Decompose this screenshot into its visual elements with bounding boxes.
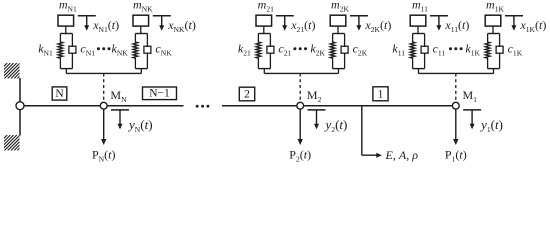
svg-text:x2K(t): x2K(t) [364,18,391,34]
svg-text:MN: MN [110,88,127,104]
svg-text:cN1: cN1 [80,41,95,57]
svg-text:m1K: m1K [486,0,504,14]
svg-text:cNK: cNK [155,41,172,57]
svg-text:xNK(t): xNK(t) [167,18,196,34]
svg-text:mNK: mNK [133,0,153,14]
svg-text:kN1: kN1 [38,41,53,57]
svg-text:M1: M1 [463,88,478,104]
svg-text:m21: m21 [258,0,274,14]
svg-text:x11(t): x11(t) [444,18,469,34]
svg-text:M2: M2 [307,88,322,104]
svg-text:P2(t): P2(t) [289,148,311,164]
svg-text:c1K: c1K [508,41,523,57]
svg-text:P1(t): P1(t) [445,148,467,164]
svg-text:c21: c21 [278,41,291,57]
svg-text:x21(t): x21(t) [290,18,315,34]
svg-text:y1(t): y1(t) [479,117,503,134]
svg-text:k11: k11 [392,41,405,57]
svg-text:yN(t): yN(t) [127,117,153,134]
svg-text:1: 1 [378,89,384,101]
svg-text:k21: k21 [238,41,251,57]
svg-text:E, A, ρ: E, A, ρ [385,148,419,162]
svg-text:c11: c11 [433,41,446,57]
svg-text:y2(t): y2(t) [324,117,348,134]
svg-text:c2K: c2K [353,41,368,57]
svg-text:N: N [55,88,64,100]
svg-text:2: 2 [244,89,250,101]
svg-text:N−1: N−1 [149,87,170,99]
svg-text:mN1: mN1 [59,0,77,14]
svg-text:PN(t): PN(t) [92,148,116,164]
svg-text:m11: m11 [412,0,428,14]
svg-text:m2K: m2K [331,0,349,14]
svg-text:k2K: k2K [310,41,325,57]
svg-text:kNK: kNK [112,41,129,57]
svg-text:x1K(t): x1K(t) [519,18,546,34]
svg-text:k1K: k1K [465,41,480,57]
svg-text:xN1(t): xN1(t) [92,18,119,34]
